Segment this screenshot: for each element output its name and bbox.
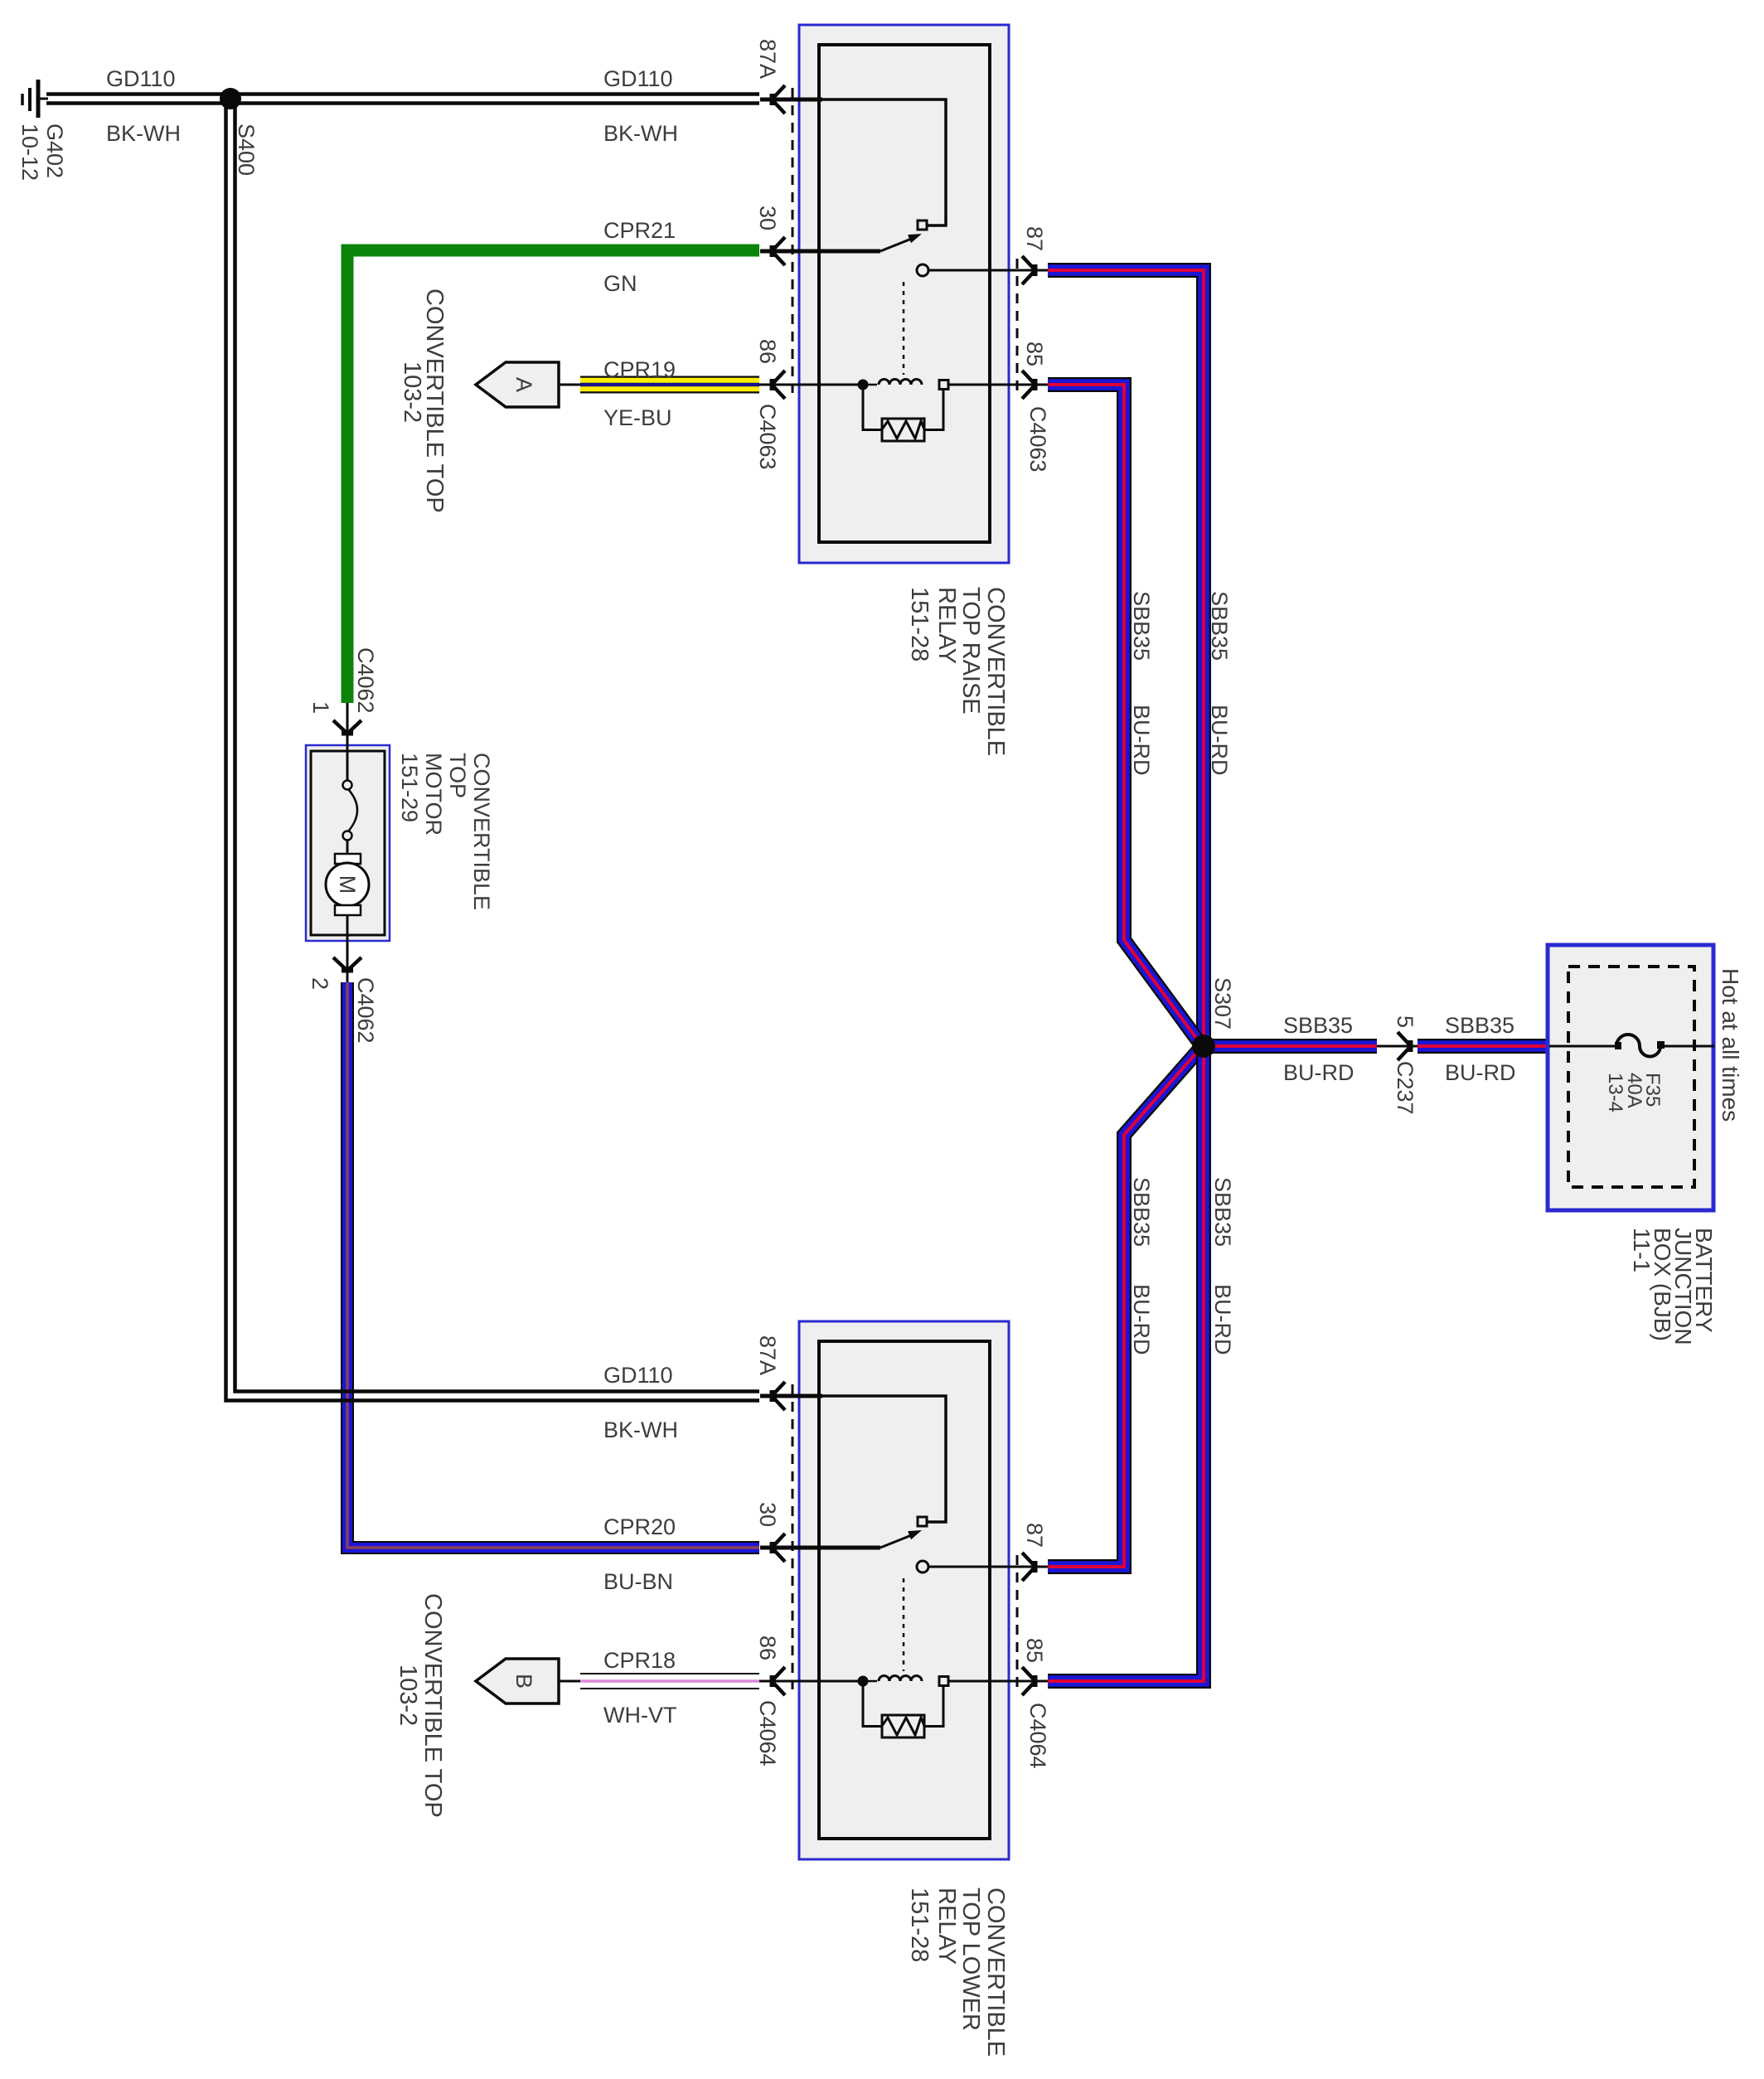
svg-text:SBB35: SBB35 — [1129, 1177, 1154, 1247]
thin link at C237 — [1377, 1045, 1417, 1048]
svg-text:MOTOR: MOTOR — [421, 753, 446, 836]
svg-text:YE-BU: YE-BU — [603, 405, 672, 430]
motor box — [306, 745, 390, 941]
svg-text:C4064: C4064 — [1025, 1703, 1050, 1769]
svg-text:5: 5 — [1393, 1015, 1417, 1028]
wire GD110 vertical to lower relay (double line) — [226, 99, 760, 1401]
svg-text:BK-WH: BK-WH — [106, 121, 181, 146]
pin1 lead — [346, 703, 349, 780]
wire SBB35 BU-RD relay2 pin85 to S307 — [1048, 1046, 1204, 1681]
svg-text:GD110: GD110 — [603, 1363, 673, 1388]
svg-text:G402: G402 — [42, 124, 67, 178]
svg-text:CPR20: CPR20 — [603, 1514, 676, 1539]
svg-text:BU-RD: BU-RD — [1283, 1060, 1354, 1085]
wire SBB35 S307 to C237 — [1204, 1039, 1377, 1054]
svg-text:BU-BN: BU-BN — [603, 1569, 673, 1594]
svg-text:M: M — [335, 875, 360, 894]
pin arrows — [333, 720, 361, 733]
svg-text:BK-WH: BK-WH — [603, 1417, 678, 1442]
svg-text:2: 2 — [308, 977, 332, 990]
node S307 — [1192, 1035, 1215, 1058]
svg-text:103-2: 103-2 — [395, 1665, 421, 1726]
svg-text:C4063: C4063 — [1025, 406, 1050, 472]
pin2 lead — [346, 915, 349, 982]
wire SBB35 C237 to BJB — [1417, 1039, 1549, 1054]
svg-text:11-1: 11-1 — [1629, 1228, 1655, 1272]
wire SBB35 BU-RD relay1 pin85 to S307 — [1048, 385, 1198, 1040]
svg-text:13-4: 13-4 — [1604, 1073, 1626, 1112]
svg-text:CPR18: CPR18 — [603, 1648, 676, 1673]
wire GD110 ground run (double line) — [46, 94, 759, 104]
svg-text:C4062: C4062 — [353, 647, 378, 714]
svg-text:CPR21: CPR21 — [603, 218, 676, 243]
wire CPR18 WH-VT — [559, 1680, 771, 1683]
svg-text:103-2: 103-2 — [399, 361, 425, 423]
svg-text:BU-RD: BU-RD — [1210, 1284, 1235, 1355]
wire CPR21 GN (green) — [347, 250, 759, 703]
svg-text:CONVERTIBLE: CONVERTIBLE — [982, 587, 1009, 756]
svg-text:BU-RD: BU-RD — [1129, 705, 1154, 776]
svg-text:C237: C237 — [1393, 1061, 1417, 1115]
svg-text:151-29: 151-29 — [397, 753, 422, 822]
svg-text:S400: S400 — [234, 124, 259, 176]
svg-text:SBB35: SBB35 — [1445, 1013, 1514, 1038]
svg-text:WH-VT: WH-VT — [603, 1703, 676, 1728]
svg-text:151-28: 151-28 — [906, 1888, 933, 1962]
svg-text:GD110: GD110 — [603, 66, 673, 91]
svg-text:10-12: 10-12 — [17, 124, 42, 181]
svg-text:BK-WH: BK-WH — [603, 121, 678, 146]
svg-text:151-28: 151-28 — [906, 587, 933, 661]
svg-text:TOP RAISE: TOP RAISE — [957, 587, 984, 715]
svg-text:S307: S307 — [1210, 977, 1235, 1030]
svg-text:CONVERTIBLE: CONVERTIBLE — [469, 753, 494, 910]
svg-text:GN: GN — [603, 271, 637, 296]
motor M — [335, 854, 361, 864]
svg-text:BU-RD: BU-RD — [1207, 705, 1232, 776]
svg-text:TOP LOWER: TOP LOWER — [957, 1888, 984, 2031]
wire CPR20 BU-BN — [347, 982, 759, 1548]
svg-text:1: 1 — [308, 701, 333, 714]
svg-text:C4064: C4064 — [755, 1700, 780, 1766]
node S400 — [220, 88, 241, 109]
svg-text:CONVERTIBLE: CONVERTIBLE — [982, 1888, 1009, 2057]
svg-text:BU-RD: BU-RD — [1445, 1060, 1516, 1085]
svg-text:RELAY: RELAY — [933, 587, 960, 664]
svg-text:SBB35: SBB35 — [1129, 591, 1154, 661]
svg-text:CPR19: CPR19 — [603, 357, 676, 382]
fuse F35 — [1549, 1045, 1616, 1048]
svg-text:BU-RD: BU-RD — [1129, 1284, 1154, 1355]
svg-text:A: A — [511, 377, 536, 392]
wire SBB35 BU-RD relay2 pin87 to S307 — [1048, 1051, 1198, 1567]
svg-text:TOP: TOP — [445, 753, 470, 798]
svg-text:Hot at all times: Hot at all times — [1718, 968, 1743, 1122]
svg-text:CONVERTIBLE TOP: CONVERTIBLE TOP — [419, 1593, 446, 1818]
svg-text:RELAY: RELAY — [933, 1888, 960, 1965]
svg-text:SBB35: SBB35 — [1283, 1013, 1353, 1038]
svg-text:SBB35: SBB35 — [1210, 1177, 1235, 1247]
breaker contacts — [343, 781, 352, 790]
wire CPR19 YE-BU — [559, 384, 771, 386]
svg-text:C4063: C4063 — [755, 404, 780, 470]
svg-text:GD110: GD110 — [106, 66, 176, 91]
wire SBB35 BU-RD relay1 pin87 to S307 — [1048, 270, 1204, 1040]
svg-text:C4062: C4062 — [353, 977, 378, 1044]
svg-text:SBB35: SBB35 — [1207, 591, 1232, 661]
svg-text:B: B — [511, 1674, 536, 1689]
